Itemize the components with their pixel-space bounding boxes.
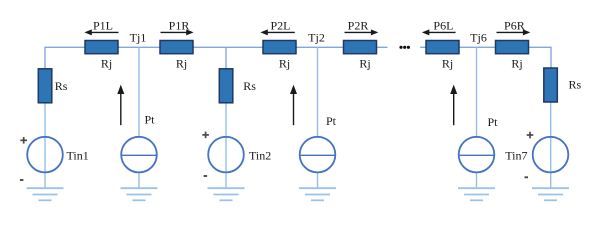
- label Rs (middle): [243, 79, 256, 93]
- label Rj under P6R resistor: [511, 56, 522, 70]
- current source Pt (section 6): [459, 137, 495, 173]
- wire: stem from Pt source 1 to ground: [138, 172, 140, 188]
- wire: bus between Rj2L and Rj2R through node Tj2: [296, 46, 344, 48]
- svg-text:Rj: Rj: [101, 56, 112, 70]
- svg-text:Pt: Pt: [326, 114, 337, 128]
- wire: stem from Pt source 2 to ground: [317, 172, 319, 188]
- label Tin7: [505, 149, 527, 163]
- plus sign of Tin7: [527, 132, 534, 139]
- voltage source Tin7: [533, 137, 569, 173]
- label P6L: [433, 18, 453, 32]
- voltage source Tin1: [27, 137, 63, 173]
- label Rj under P1R resistor: [176, 56, 187, 70]
- wire: node Tj1 vertical drop to current source Pt: [138, 47, 140, 137]
- svg-text:Tj2: Tj2: [308, 30, 325, 44]
- label Rs (left): [55, 79, 68, 93]
- resistor Rj (P1L): [85, 41, 118, 54]
- wire: bus between Rj1R and Rj2L through middle Rs tap: [193, 46, 263, 48]
- resistor Rj (P6L): [426, 41, 459, 54]
- current source Pt (section 1): [121, 137, 157, 173]
- ground under Pt source 6: [458, 188, 495, 200]
- wire: stem from Pt source 6 to ground: [476, 172, 478, 188]
- ground under Tin1: [27, 188, 64, 200]
- svg-text:Rs: Rs: [569, 78, 582, 92]
- resistor Rs (left): [38, 69, 52, 103]
- svg-text:Rj: Rj: [511, 56, 522, 70]
- minus sign of Tin7: [525, 176, 529, 178]
- minus sign of Tin2: [204, 175, 208, 177]
- svg-text:Tj1: Tj1: [130, 30, 147, 44]
- label P6R: [504, 18, 525, 32]
- resistor Rj (P1R): [160, 41, 193, 54]
- resistor Rs (right): [544, 68, 558, 102]
- resistor Rs (middle): [219, 69, 233, 103]
- arrow of current source 2 (points up): [290, 85, 297, 126]
- label Pt (section 1): [145, 112, 156, 126]
- svg-text:P1L: P1L: [93, 18, 113, 32]
- svg-text:Rj: Rj: [279, 56, 290, 70]
- current source Pt (section 2): [300, 137, 336, 173]
- label P2R: [348, 18, 369, 32]
- wire: bus right segment to right corner: [529, 46, 552, 48]
- arrow P6L (points left): [422, 29, 456, 35]
- plus sign of Tin1: [20, 137, 27, 144]
- arrow of current source 6 (points up): [450, 85, 457, 126]
- wire: middle vertical branch from bus down through Rs to Tin2 and ground: [225, 47, 227, 189]
- label Rj under P2R resistor: [359, 56, 370, 70]
- svg-text:Tj6: Tj6: [470, 30, 487, 44]
- label P1R: [169, 18, 190, 32]
- svg-text:Pt: Pt: [488, 115, 499, 129]
- voltage source Tin2: [208, 137, 244, 173]
- wire: bus from ellipsis to Rj6L: [420, 46, 426, 48]
- svg-text:Rj: Rj: [359, 56, 370, 70]
- ground under Tin7: [532, 188, 569, 200]
- svg-text:Tin1: Tin1: [67, 149, 89, 163]
- svg-text:Rj: Rj: [176, 56, 187, 70]
- label Rj under P6L resistor: [442, 56, 453, 70]
- label P1L: [93, 18, 113, 32]
- wire: bus between Rj1L and Rj1R through node Tj1: [118, 46, 160, 48]
- wire: top bus left segment: [45, 46, 85, 48]
- minus sign of Tin1: [20, 179, 24, 181]
- ground under Tin2: [208, 188, 245, 200]
- label Rj under P2L resistor: [279, 56, 290, 70]
- arrow P1L (points left): [84, 29, 118, 35]
- svg-text:P2L: P2L: [270, 18, 290, 32]
- ground under Pt source 2: [299, 188, 336, 200]
- arrow P1R (points right): [161, 29, 194, 35]
- svg-text:Rs: Rs: [55, 79, 68, 93]
- wire: node Tj6 vertical drop to current source Pt: [476, 47, 478, 137]
- node Tj6 label: [470, 30, 487, 44]
- ellipsis between section 2 and section 6: [399, 46, 410, 49]
- wire: node Tj2 vertical drop to current source Pt: [317, 47, 319, 137]
- resistor Rj (P6R): [496, 41, 529, 54]
- svg-text:Rj: Rj: [442, 56, 453, 70]
- arrow P2L (points left): [260, 29, 294, 35]
- svg-text:Pt: Pt: [145, 112, 156, 126]
- label Rs (right): [569, 78, 582, 92]
- wire: right vertical branch from bus down through Rs to Tin7 and ground: [550, 47, 552, 189]
- svg-text:P2R: P2R: [348, 18, 369, 32]
- node Tj2 label: [308, 30, 325, 44]
- wire: left vertical branch from bus down through Rs to Tin1 and ground: [44, 47, 46, 189]
- label Pt (section 6): [488, 115, 499, 129]
- svg-text:Tin2: Tin2: [249, 149, 271, 163]
- label P2L: [270, 18, 290, 32]
- svg-text:P1R: P1R: [169, 18, 190, 32]
- svg-text:Rs: Rs: [243, 79, 256, 93]
- ground under Pt source 1: [121, 188, 158, 200]
- wire: bus between Rj6L and Rj6R through node Tj6: [459, 46, 496, 48]
- label Pt (section 2): [326, 114, 337, 128]
- label Rj under P1L resistor: [101, 56, 112, 70]
- resistor Rj (P2R): [344, 41, 377, 54]
- wire: bus from Rj2R to ellipsis: [377, 46, 388, 48]
- arrow P2R (points right): [345, 29, 379, 35]
- svg-text:Tin7: Tin7: [505, 149, 527, 163]
- plus sign of Tin2: [202, 132, 209, 139]
- svg-text:P6L: P6L: [433, 18, 453, 32]
- resistor Rj (P2L): [263, 41, 296, 54]
- svg-text:P6R: P6R: [504, 18, 525, 32]
- arrow P6R (points right): [497, 29, 531, 35]
- node Tj1 label: [130, 30, 147, 44]
- label Tin1: [67, 149, 89, 163]
- label Tin2: [249, 149, 271, 163]
- arrow of current source 1 (points up): [117, 85, 124, 126]
